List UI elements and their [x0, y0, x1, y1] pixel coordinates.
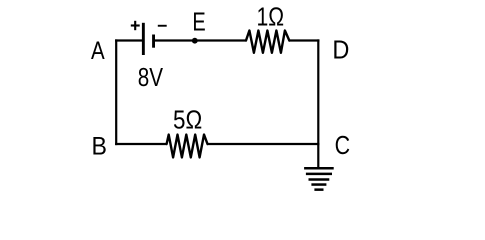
resistor R1 1ohm zigzag [246, 31, 289, 53]
battery negative plate (short) [152, 35, 155, 48]
svg-text:A: A [91, 36, 105, 65]
wire top-left: battery + terminal to corner A [115, 39, 143, 41]
svg-text:C: C [335, 132, 350, 160]
wire bottom-right: resistor R2 to C [207, 143, 320, 145]
svg-text:D: D [332, 37, 349, 65]
battery polarity + mark [131, 21, 140, 30]
wire ground stem at C [317, 143, 319, 167]
wire right vertical: D to C [317, 39, 319, 145]
wire left vertical: A to B [115, 39, 117, 145]
svg-text:E: E [192, 7, 205, 36]
battery polarity - mark [158, 25, 167, 27]
wire: battery - terminal through node E to resistor R1 [154, 39, 247, 41]
svg-text:5Ω: 5Ω [173, 106, 202, 135]
node E junction dot [192, 38, 198, 44]
ground symbol at C [304, 168, 334, 189]
battery positive plate (long) [142, 23, 145, 55]
wire top-right: resistor R1 to corner D [289, 39, 320, 41]
wire bottom-left: B to resistor R2 [115, 143, 167, 145]
svg-text:B: B [91, 133, 106, 161]
svg-text:1Ω: 1Ω [257, 2, 285, 32]
svg-text:8V: 8V [138, 63, 164, 92]
resistor R2 5ohm zigzag [167, 135, 208, 158]
